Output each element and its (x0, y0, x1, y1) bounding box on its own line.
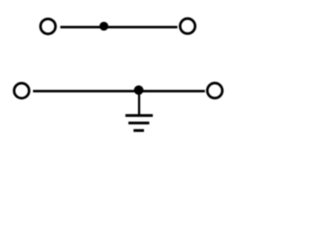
terminal circle top-left (41, 19, 56, 34)
wire top level (60, 26, 177, 29)
terminal circle bottom-right (207, 83, 222, 98)
terminal circle bottom-left (14, 83, 29, 98)
junction dot top (99, 22, 108, 31)
ground (125, 116, 152, 131)
wire ground lead vertical (138, 91, 140, 116)
terminal circle top-right (180, 19, 195, 34)
wire bottom level (33, 90, 205, 93)
junction dot bottom (PE tap) (134, 85, 144, 95)
